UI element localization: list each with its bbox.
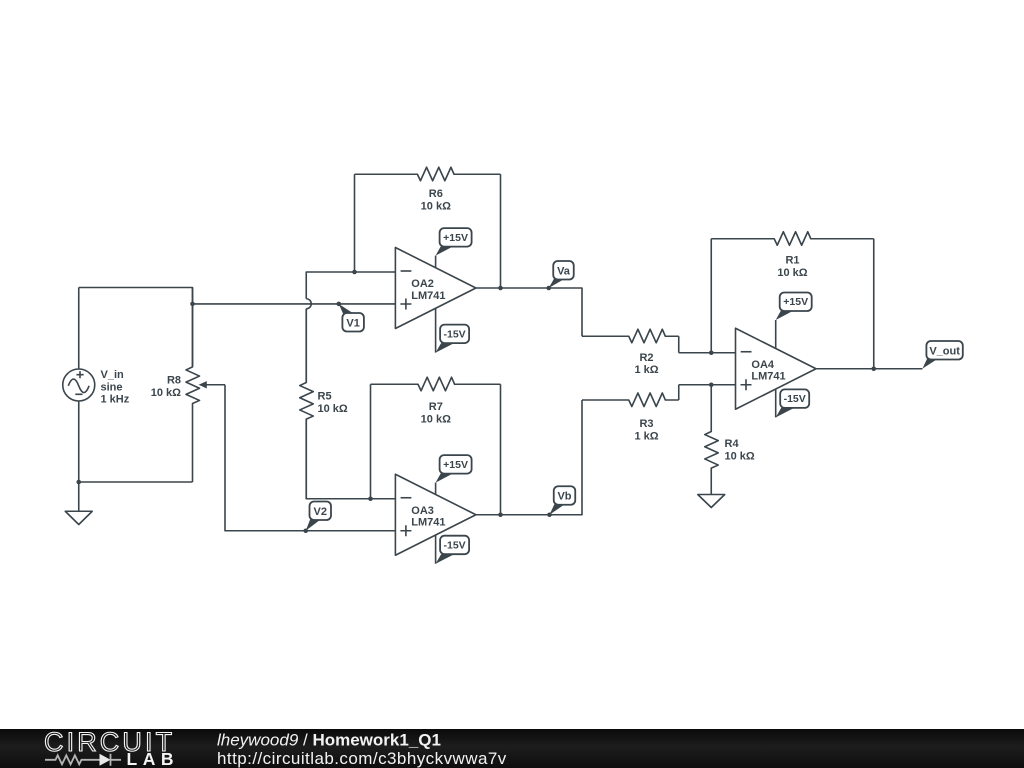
svg-text:Vb: Vb [557,491,571,503]
CircuitLab logo [44,727,179,768]
node flag V2 [303,502,331,534]
junction J8 [709,382,714,387]
wire R6 left leg [354,174,356,272]
power flag +15V (OA2) [436,228,472,268]
wire OA2 - input [306,272,395,299]
node flag V_out [922,341,962,369]
svg-text:1 kHz: 1 kHz [101,394,130,406]
op-amp OA3 LM741 [395,474,476,555]
wire hop to R5 top [305,309,307,383]
potentiometer R8 10 k&#937; [151,288,225,483]
svg-text:R6: R6 [429,188,443,200]
svg-text:-15V: -15V [444,328,466,340]
op-amp OA4 LM741 [736,328,817,409]
svg-text:-15V: -15V [784,393,806,405]
svg-text:R7: R7 [429,401,443,413]
svg-text:LM741: LM741 [751,371,785,383]
svg-text:10 kΩ: 10 kΩ [777,267,807,279]
svg-text:LAB: LAB [127,749,179,768]
resistor R7 10 k&#937; [371,377,501,425]
svg-text:V1: V1 [346,317,359,329]
svg-text:10 kΩ: 10 kΩ [421,413,451,425]
junction J1 [190,302,195,307]
junction J5 [368,496,373,501]
wire R1 right leg [873,239,875,369]
ground (V_in) [65,511,92,524]
wire R5 bottom to OA3 - input [306,419,395,499]
wire R8 wiper down to OA3 + input (V2) [225,385,395,531]
svg-text:LM741: LM741 [411,290,445,302]
svg-text:http://circuitlab.com/c3bhyckv: http://circuitlab.com/c3bhyckvwwa7v [217,749,507,768]
svg-text:10 kΩ: 10 kΩ [725,451,755,463]
svg-text:OA2: OA2 [411,278,434,290]
svg-text:+15V: +15V [443,232,468,244]
svg-text:10 kΩ: 10 kΩ [421,201,451,213]
svg-text:R2: R2 [639,352,653,364]
svg-text:R1: R1 [785,255,799,267]
wire R7 left leg [370,384,372,499]
junction J7 [709,350,714,355]
svg-text:V_out: V_out [929,345,960,357]
resistor R2 1 k&#937; [582,329,679,376]
junction J6 [498,512,503,517]
voltage source V_in (sine 1 kHz) [63,288,130,483]
footer title text [217,730,507,768]
svg-text:-15V: -15V [444,539,466,551]
ground (R4) [698,495,725,508]
junction J2 [76,480,81,485]
svg-text:OA4: OA4 [751,359,775,371]
wire OA4 output to V_out [816,368,922,370]
svg-text:lheywood9 / Homework1_Q1: lheywood9 / Homework1_Q1 [217,730,441,749]
svg-text:1 kΩ: 1 kΩ [634,364,658,376]
wire R7 right leg [500,384,502,515]
node flag V1 [336,302,363,332]
svg-text:R8: R8 [167,374,181,386]
svg-text:sine: sine [101,381,123,393]
svg-text:10 kΩ: 10 kΩ [318,403,348,415]
power flag +15V (OA3) [436,455,472,494]
op-amp OA2 LM741 [395,248,476,329]
resistor R5 10 k&#937; [300,309,348,499]
junction J9 [871,366,876,371]
power flag +15V (OA4) [776,293,812,349]
svg-text:+15V: +15V [443,459,468,471]
wire R6 right leg [500,174,502,288]
svg-text:1 kΩ: 1 kΩ [634,430,658,442]
wire OA2 output to R2 (node Va) [476,288,582,336]
wire R3 to OA4 + input [679,385,736,400]
junction J3 [352,270,357,275]
power flag -15V (OA3) [436,535,470,564]
node flag Va [546,261,573,290]
resistor R1 10 k&#937; [711,232,874,279]
power flag -15V (OA2) [436,308,470,352]
resistor R6 10 k&#937; [355,167,501,212]
svg-text:R3: R3 [639,418,653,430]
svg-text:10 kΩ: 10 kΩ [151,387,181,399]
svg-text:OA3: OA3 [411,505,434,517]
node flag Vb [547,486,575,517]
svg-text:Va: Va [557,265,571,277]
svg-text:R4: R4 [725,438,740,450]
svg-text:LM741: LM741 [411,517,445,529]
wire V_in bottom to ground and R8 bottom [79,482,193,511]
resistor R4 10 k&#937; [705,385,755,495]
wire node V1 to OA2 + input [193,303,396,305]
power flag -15V (OA4) [776,389,810,417]
wire hop (R5 branch over V1 wire) [306,299,311,309]
resistor R3 1 k&#937; [582,393,679,442]
wire R2 to OA4 - input [679,336,736,353]
wire R1 left leg [710,239,712,353]
svg-text:V2: V2 [314,506,327,518]
svg-text:V_in: V_in [101,369,125,381]
wire OA3 output to R3 (node Vb) [476,400,582,515]
wire V_in top to R8 top [79,288,193,368]
footer bar [0,729,1024,768]
svg-text:+15V: +15V [783,296,808,308]
junction J4 [498,286,503,291]
svg-text:R5: R5 [318,391,332,403]
